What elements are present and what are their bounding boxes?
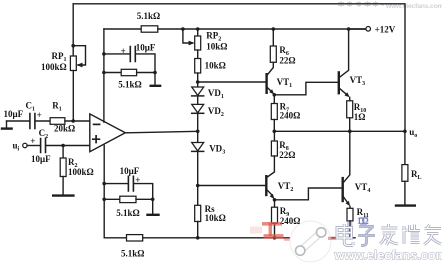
node fb res2 xyxy=(102,198,106,202)
node VT3 collector rail xyxy=(347,27,351,31)
svg-text:240Ω: 240Ω xyxy=(280,110,301,120)
resistor R8 xyxy=(273,131,275,141)
wire ui to C2 xyxy=(27,145,40,147)
wire top feedback rail xyxy=(73,4,405,132)
svg-text:10μF: 10μF xyxy=(4,109,24,119)
resistor R11 xyxy=(349,206,351,208)
transistor VT3 xyxy=(339,29,348,78)
svg-text:+12V: +12V xyxy=(375,24,396,34)
arrow RP2 wiper xyxy=(189,41,195,46)
svg-text:5.1kΩ: 5.1kΩ xyxy=(118,80,141,90)
node output to bias chain xyxy=(196,130,200,134)
watermark blue fragment over R11 xyxy=(348,218,368,235)
svg-text:www.elecfans.com: www.elecfans.com xyxy=(334,248,442,262)
wire opamp output xyxy=(125,131,197,133)
node Rs bottom xyxy=(196,236,200,240)
svg-text:10μF: 10μF xyxy=(31,154,51,164)
svg-text:+: + xyxy=(135,175,140,185)
terminal ui xyxy=(23,143,27,147)
transistor VT4 xyxy=(344,131,350,182)
svg-text:10kΩ: 10kΩ xyxy=(205,213,226,223)
svg-text:10μF: 10μF xyxy=(136,43,156,53)
resistor 10k mid xyxy=(195,59,201,74)
node uo xyxy=(403,130,407,134)
node R9 bottom xyxy=(273,236,277,240)
node VT1 base branch xyxy=(196,80,200,84)
wire RP2 wiper xyxy=(183,29,193,43)
wire to VT1 base xyxy=(198,81,267,83)
transistor VT2 xyxy=(265,176,267,195)
watermark faint top right xyxy=(338,1,384,7)
resistor 5.1k top xyxy=(141,26,158,32)
resistor R1 xyxy=(50,118,65,125)
watermark red streak left of text xyxy=(328,237,336,240)
svg-text:1Ω: 1Ω xyxy=(354,112,366,122)
wire C2 to opamp xyxy=(46,145,90,147)
wire feedback vertical lower xyxy=(103,145,105,237)
op-amp U1 xyxy=(90,114,126,152)
resistor 5.1k fb1 xyxy=(104,72,121,74)
wire top bias rail xyxy=(104,28,141,30)
wire C1 row xyxy=(7,120,30,122)
diode VD1 xyxy=(192,87,204,95)
node VT1 emitter xyxy=(273,93,277,97)
capacitor C1 xyxy=(30,114,35,129)
node R6 rail xyxy=(272,27,276,31)
svg-text:10kΩ: 10kΩ xyxy=(206,42,227,52)
svg-text:+: + xyxy=(37,110,42,120)
arrow RP1 wiper xyxy=(77,63,83,68)
transistor VT1 xyxy=(265,74,267,93)
node fb res1 xyxy=(102,71,106,75)
svg-text:22Ω: 22Ω xyxy=(279,150,295,160)
resistor R10 xyxy=(349,97,351,100)
ground fb2 xyxy=(152,199,154,214)
node RP1 bottom xyxy=(71,119,75,123)
wire R1 to opamp xyxy=(65,120,90,122)
wire output rail xyxy=(274,130,405,132)
capacitor 10uF fb1 xyxy=(104,53,130,55)
node fb1 right xyxy=(153,71,157,75)
svg-text:22Ω: 22Ω xyxy=(279,56,295,66)
diode VD3 xyxy=(192,143,204,151)
resistor R6 xyxy=(272,29,274,46)
resistor R2 xyxy=(62,146,64,159)
resistor R7 xyxy=(273,95,275,104)
diode VD2 xyxy=(192,104,204,112)
svg-text:+: + xyxy=(30,136,35,146)
wire VT2 emitter to VT4 base xyxy=(275,188,343,200)
resistor 5.1k bottom xyxy=(127,235,143,241)
resistor 5.1k fb2 xyxy=(104,198,120,200)
wire RP1 column upper xyxy=(72,4,74,56)
svg-text:+: + xyxy=(121,46,126,56)
ground R2 xyxy=(53,194,73,196)
ground fb1 xyxy=(154,73,156,86)
ground C1 left xyxy=(6,121,8,128)
wire RP1 body to R1 row xyxy=(72,71,74,122)
node RP1 top xyxy=(71,44,75,48)
wire RP1 wiper xyxy=(73,46,85,65)
node VT2 emitter xyxy=(273,198,277,202)
node R2 top xyxy=(61,144,65,148)
svg-text:10kΩ: 10kΩ xyxy=(205,61,226,71)
watermark link logo circle xyxy=(290,221,331,262)
node rail RP2 xyxy=(196,27,200,31)
resistor R9 xyxy=(274,200,276,207)
svg-text:240Ω: 240Ω xyxy=(280,216,301,226)
watermark red glyph xyxy=(250,223,300,240)
resistor RL xyxy=(404,131,406,164)
node R11 bottom xyxy=(348,236,352,240)
svg-text:5.1kΩ: 5.1kΩ xyxy=(121,249,144,259)
node R7 bottom xyxy=(273,130,277,134)
ground RL xyxy=(396,204,415,206)
capacitor 10uF fb2 xyxy=(104,183,128,185)
svg-text:100kΩ: 100kΩ xyxy=(68,167,94,177)
potentiometer RP1 xyxy=(70,56,76,71)
node fb cap2 xyxy=(102,182,106,186)
wire VT1 emitter to VT3 base xyxy=(274,82,338,95)
wire to VT2 base xyxy=(198,185,267,187)
wire feedback vertical upper xyxy=(103,29,105,122)
wire bottom rail xyxy=(104,237,126,239)
terminal +12V xyxy=(349,28,366,30)
svg-text:5.1kΩ: 5.1kΩ xyxy=(137,11,160,21)
svg-text:100kΩ: 100kΩ xyxy=(41,62,67,72)
node VT2 base branch xyxy=(196,184,200,188)
capacitor C2 xyxy=(41,139,46,153)
node R10 bottom xyxy=(348,130,352,134)
potentiometer RP2 xyxy=(197,29,199,36)
node fb cap1 xyxy=(102,52,106,56)
resistor Rs xyxy=(195,205,201,221)
node rail wiper xyxy=(181,27,185,31)
svg-text:20kΩ: 20kΩ xyxy=(54,124,75,134)
node fb2 right xyxy=(151,198,155,202)
svg-text:5.1kΩ: 5.1kΩ xyxy=(116,208,139,218)
